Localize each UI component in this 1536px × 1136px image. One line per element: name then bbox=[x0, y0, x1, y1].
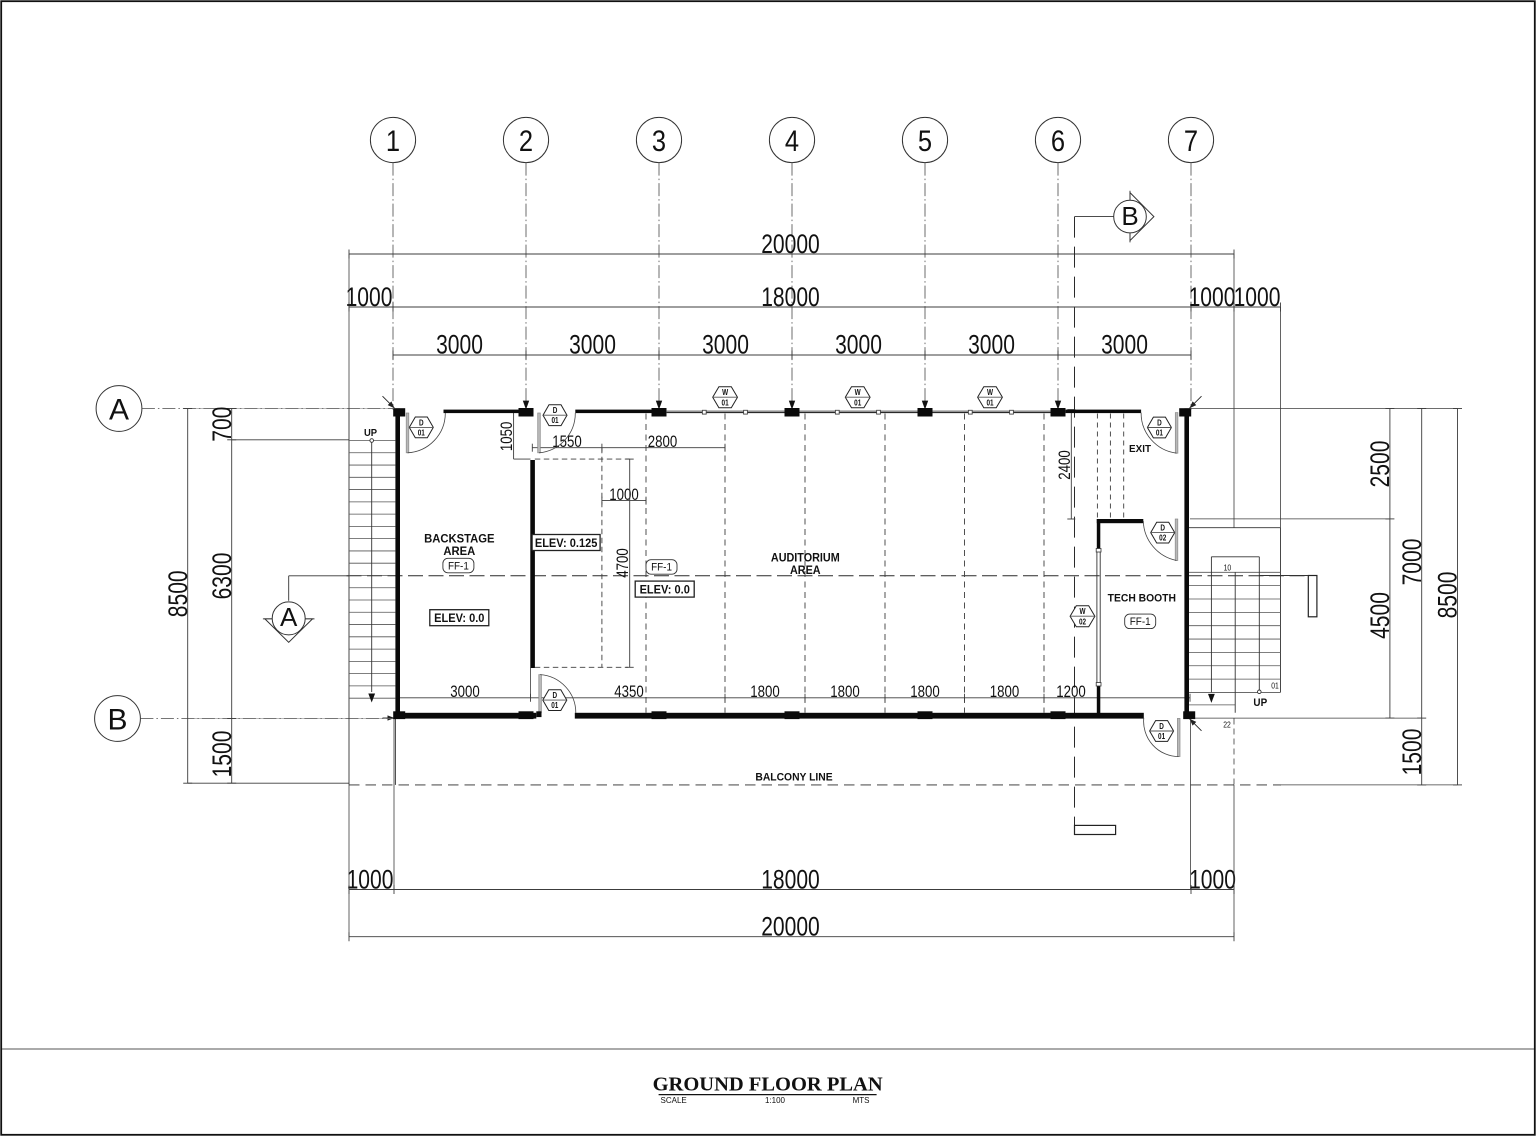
svg-text:TECH BOOTH: TECH BOOTH bbox=[1108, 592, 1176, 604]
svg-text:1000: 1000 bbox=[347, 865, 394, 895]
svg-text:W: W bbox=[722, 387, 728, 397]
svg-text:5: 5 bbox=[918, 124, 932, 157]
svg-text:02: 02 bbox=[1159, 533, 1166, 543]
svg-text:01: 01 bbox=[1271, 681, 1279, 691]
svg-text:D: D bbox=[1160, 523, 1165, 533]
svg-text:1: 1 bbox=[386, 124, 400, 157]
svg-text:W: W bbox=[855, 387, 861, 397]
svg-text:01: 01 bbox=[418, 428, 425, 438]
svg-text:3000: 3000 bbox=[1101, 330, 1148, 360]
svg-text:MTS: MTS bbox=[853, 1096, 870, 1105]
svg-text:7000: 7000 bbox=[1397, 539, 1427, 586]
svg-text:1800: 1800 bbox=[990, 683, 1019, 702]
svg-text:18000: 18000 bbox=[761, 865, 820, 895]
svg-text:4350: 4350 bbox=[614, 683, 643, 702]
svg-text:1800: 1800 bbox=[750, 683, 779, 702]
svg-text:D: D bbox=[1157, 418, 1162, 428]
svg-text:A: A bbox=[109, 394, 129, 427]
svg-text:D: D bbox=[419, 418, 424, 428]
svg-text:01: 01 bbox=[854, 398, 861, 408]
svg-text:B: B bbox=[1121, 201, 1138, 231]
svg-text:UP: UP bbox=[1253, 698, 1267, 710]
svg-text:AUDITORIUM: AUDITORIUM bbox=[771, 552, 840, 564]
svg-text:1200: 1200 bbox=[1056, 683, 1085, 702]
svg-text:3000: 3000 bbox=[968, 330, 1015, 360]
svg-text:A: A bbox=[280, 602, 298, 632]
svg-text:01: 01 bbox=[551, 700, 558, 710]
svg-text:01: 01 bbox=[986, 398, 993, 408]
svg-text:22: 22 bbox=[1223, 720, 1231, 730]
svg-text:ELEV: 0.0: ELEV: 0.0 bbox=[434, 613, 484, 625]
svg-text:2800: 2800 bbox=[648, 433, 677, 452]
svg-text:8500: 8500 bbox=[163, 570, 193, 617]
svg-text:700: 700 bbox=[207, 407, 237, 442]
svg-text:1000: 1000 bbox=[609, 486, 638, 505]
svg-text:3: 3 bbox=[652, 124, 666, 157]
svg-text:02: 02 bbox=[1079, 617, 1086, 627]
svg-text:3000: 3000 bbox=[569, 330, 616, 360]
svg-text:B: B bbox=[107, 704, 127, 737]
svg-text:D: D bbox=[553, 405, 558, 415]
svg-text:1800: 1800 bbox=[910, 683, 939, 702]
svg-text:ELEV: 0.0: ELEV: 0.0 bbox=[640, 584, 690, 596]
svg-text:W: W bbox=[1079, 606, 1085, 616]
svg-text:1500: 1500 bbox=[1397, 729, 1427, 776]
svg-text:1000: 1000 bbox=[1189, 283, 1236, 313]
svg-text:AREA: AREA bbox=[443, 544, 475, 557]
svg-text:AREA: AREA bbox=[790, 565, 821, 577]
svg-text:6: 6 bbox=[1051, 124, 1065, 157]
svg-text:1000: 1000 bbox=[1189, 865, 1236, 895]
svg-text:01: 01 bbox=[1156, 428, 1163, 438]
svg-text:4: 4 bbox=[785, 124, 799, 157]
svg-text:SCALE: SCALE bbox=[661, 1096, 687, 1105]
svg-text:01: 01 bbox=[551, 415, 558, 425]
svg-text:3000: 3000 bbox=[436, 330, 483, 360]
svg-text:4700: 4700 bbox=[614, 548, 633, 577]
svg-text:1050: 1050 bbox=[498, 422, 517, 451]
svg-text:3000: 3000 bbox=[835, 330, 882, 360]
svg-text:20000: 20000 bbox=[761, 912, 820, 942]
svg-text:7: 7 bbox=[1184, 124, 1198, 157]
svg-text:1500: 1500 bbox=[207, 731, 237, 778]
svg-text:1800: 1800 bbox=[830, 683, 859, 702]
svg-text:1550: 1550 bbox=[552, 433, 581, 452]
svg-text:3000: 3000 bbox=[450, 683, 479, 702]
svg-text:1:100: 1:100 bbox=[765, 1096, 786, 1105]
svg-text:1000: 1000 bbox=[1234, 283, 1281, 313]
svg-text:UP: UP bbox=[364, 428, 377, 440]
svg-text:2400: 2400 bbox=[1055, 450, 1074, 479]
svg-text:BALCONY LINE: BALCONY LINE bbox=[755, 771, 832, 783]
svg-text:4500: 4500 bbox=[1366, 592, 1396, 639]
svg-text:20000: 20000 bbox=[761, 230, 820, 260]
svg-text:8500: 8500 bbox=[1433, 572, 1463, 619]
svg-text:FF-1: FF-1 bbox=[651, 562, 672, 574]
svg-text:10: 10 bbox=[1224, 563, 1232, 573]
svg-text:01: 01 bbox=[722, 398, 729, 408]
svg-text:1000: 1000 bbox=[346, 283, 393, 313]
svg-text:2500: 2500 bbox=[1366, 441, 1396, 488]
svg-text:D: D bbox=[552, 690, 557, 700]
svg-text:3000: 3000 bbox=[702, 330, 749, 360]
svg-text:6300: 6300 bbox=[207, 553, 237, 600]
svg-text:18000: 18000 bbox=[761, 283, 820, 313]
svg-text:EXIT: EXIT bbox=[1129, 444, 1152, 455]
svg-text:D: D bbox=[1159, 721, 1164, 731]
svg-text:ELEV: 0.125: ELEV: 0.125 bbox=[535, 537, 598, 549]
svg-text:FF-1: FF-1 bbox=[1130, 617, 1151, 629]
svg-text:01: 01 bbox=[1158, 731, 1165, 741]
svg-text:W: W bbox=[987, 387, 993, 397]
svg-text:2: 2 bbox=[519, 124, 533, 157]
svg-text:FF-1: FF-1 bbox=[448, 561, 469, 573]
svg-text:GROUND FLOOR PLAN: GROUND FLOOR PLAN bbox=[653, 1074, 883, 1096]
